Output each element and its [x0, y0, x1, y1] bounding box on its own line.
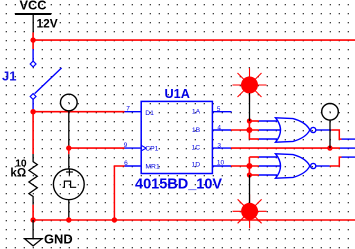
wire gate1 row A: [249, 120, 259, 122]
node junction gate1 A: [247, 118, 252, 123]
ground: [25, 220, 73, 247]
svg-text:5: 5: [217, 106, 221, 113]
wire 1B row: [231, 129, 259, 131]
pin gate2 input A: [259, 156, 277, 158]
IC U1A 4015BD shift register: [141, 101, 212, 173]
wire CP1 row: [69, 147, 125, 149]
svg-text:VCC: VCC: [20, 0, 47, 12]
probe terminal P2: [322, 104, 339, 121]
pin gate2 input B: [259, 165, 281, 167]
resistor R1: [29, 154, 37, 205]
svg-text:3: 3: [217, 142, 221, 149]
gate U2B 3-input NOR: [276, 154, 316, 179]
svg-text:1C: 1C: [191, 145, 200, 152]
gate U2A 3-input NOR: [276, 118, 316, 143]
pin gate2 output stub: [316, 165, 330, 167]
wire top rail: [33, 39, 355, 41]
pin gate1 input C: [259, 138, 277, 140]
svg-text:U1A: U1A: [165, 87, 190, 101]
node junction gate1 B: [246, 127, 252, 133]
probe terminal P1: [60, 94, 77, 111]
svg-text:1B: 1B: [192, 127, 201, 134]
wire probe X2 stem: [249, 175, 251, 203]
pin gate2 input C: [259, 174, 277, 176]
svg-text:4: 4: [217, 125, 221, 132]
pin right edge row 2: [340, 147, 355, 149]
probe indicator X2: [233, 194, 267, 228]
wire 1C row: [231, 147, 340, 149]
wire gate1 output elbow: [331, 130, 341, 139]
node junction gate2 B: [246, 163, 252, 169]
svg-text:10: 10: [217, 159, 225, 166]
svg-text:1D: 1D: [191, 162, 200, 169]
wire left column upper: [32, 112, 34, 154]
pin gate1 input B: [259, 129, 281, 131]
wire gate1 row C: [249, 138, 259, 140]
svg-text:D1: D1: [145, 110, 154, 117]
wire gate2 input column: [248, 157, 250, 175]
pin right edge row 1: [342, 138, 355, 140]
wire probe P2 stem: [329, 120, 331, 148]
switch J1: [2, 49, 62, 112]
wire gate1 input column: [248, 121, 250, 139]
svg-text:J1: J1: [2, 69, 16, 84]
pin gate1 input A: [259, 120, 277, 122]
svg-text:9: 9: [124, 142, 128, 149]
wire MR elbow: [114, 166, 124, 220]
node junction MR bottom: [112, 217, 117, 222]
svg-text:kΩ: kΩ: [10, 167, 26, 180]
wire clock top stem: [68, 111, 70, 146]
wire 1D row: [231, 165, 259, 167]
wire clock bottom stem: [68, 200, 70, 220]
wire gate2 row A: [249, 156, 259, 158]
node junction gate2 C: [247, 172, 252, 177]
clock source V1: [53, 169, 84, 200]
svg-text:GND: GND: [44, 232, 73, 247]
svg-text:4015BD_10V: 4015BD_10V: [135, 176, 222, 192]
value label 10 kOhm: [10, 159, 27, 180]
pin 1C stub: [212, 147, 231, 149]
node junction at VCC rail: [30, 37, 35, 42]
wire bottom rail: [33, 219, 355, 221]
node junction CP tap: [66, 145, 71, 150]
pin MR1 stub: [125, 165, 142, 167]
node junction 1C: [327, 145, 332, 150]
wire gate2 output elbow: [330, 157, 342, 166]
wire VCC stem red segment: [32, 32, 34, 49]
wire D1 row: [33, 111, 124, 113]
power VCC: [15, 0, 51, 32]
svg-text:MR1: MR1: [145, 164, 160, 171]
wire gate2 row C: [249, 174, 259, 176]
svg-text:12V: 12V: [37, 16, 58, 30]
pin right edge row 3: [342, 156, 355, 158]
pin gate1 output stub: [316, 129, 332, 131]
node junction switch bottom: [30, 109, 35, 114]
svg-text:6: 6: [124, 160, 128, 167]
probe indicator X1: [233, 68, 267, 102]
wire probe X1 stem: [249, 93, 251, 121]
wire left column lower: [32, 205, 34, 220]
pin 1B stub: [212, 129, 231, 131]
pin CP1 stub: [125, 147, 142, 149]
pin 1A stub: [212, 111, 231, 113]
pin 1D stub: [212, 165, 231, 167]
pin D1 stub: [125, 111, 142, 113]
svg-text:CP1: CP1: [145, 146, 158, 153]
node junction clock bottom: [66, 217, 71, 222]
svg-text:1A: 1A: [192, 108, 201, 115]
svg-text:7: 7: [126, 106, 130, 113]
node junction bottom left: [30, 217, 35, 222]
